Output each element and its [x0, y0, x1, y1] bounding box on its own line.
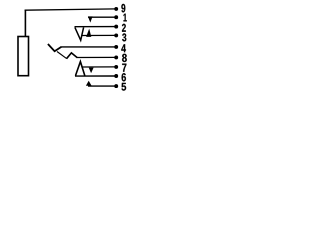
contact arrow pin 7 (points down) [89, 68, 94, 74]
label pin 7 [122, 64, 126, 72]
plug body J1 [18, 37, 29, 76]
wire pin 6 [75, 75, 116, 77]
ring contact spring bend [67, 53, 78, 59]
label pin 6 [122, 73, 126, 81]
node pin 2 dot [114, 25, 118, 29]
node pin 6 dot [114, 74, 118, 78]
wire pin 8 [77, 56, 117, 58]
label pin 9 [121, 4, 125, 13]
contact arrow pin 5 (points up) [86, 81, 92, 86]
wire pin 1 [88, 16, 116, 18]
tip changeover contact (open triangle) [75, 27, 84, 40]
label pin 2 [122, 24, 126, 32]
node pin 3 dot [114, 33, 118, 37]
ring changeover contact (open triangle, points up) [76, 62, 85, 76]
background [0, 0, 144, 102]
node pin 5 dot [114, 84, 118, 88]
contact arrow pin 1 (normally-open, points down) [88, 16, 93, 22]
wire sleeve horizontal to pin 9 [25, 9, 117, 10]
wire pin 3 [82, 34, 116, 36]
tip contact spring [48, 44, 61, 51]
wire pin 2 (tip switch line) [75, 26, 117, 28]
label pin 4 [121, 44, 126, 52]
label pin 3 [122, 33, 126, 41]
label pin 1 [124, 14, 127, 22]
node pin 8 dot [114, 55, 118, 59]
wire pin 5 [88, 85, 116, 87]
wire pin 7 [82, 66, 116, 68]
node pin 1 dot [114, 15, 118, 19]
node pin 4 dot [114, 45, 118, 49]
node pin 7 dot [114, 65, 118, 69]
wire sleeve vertical [24, 10, 26, 37]
wire pin 4 [61, 46, 116, 48]
ring contact spring diagonal [57, 52, 67, 59]
contact arrow pin 3 (points up) [86, 29, 91, 37]
label pin 8 [122, 54, 127, 62]
node pin 9 dot [114, 7, 118, 11]
label pin 5 [122, 83, 127, 91]
